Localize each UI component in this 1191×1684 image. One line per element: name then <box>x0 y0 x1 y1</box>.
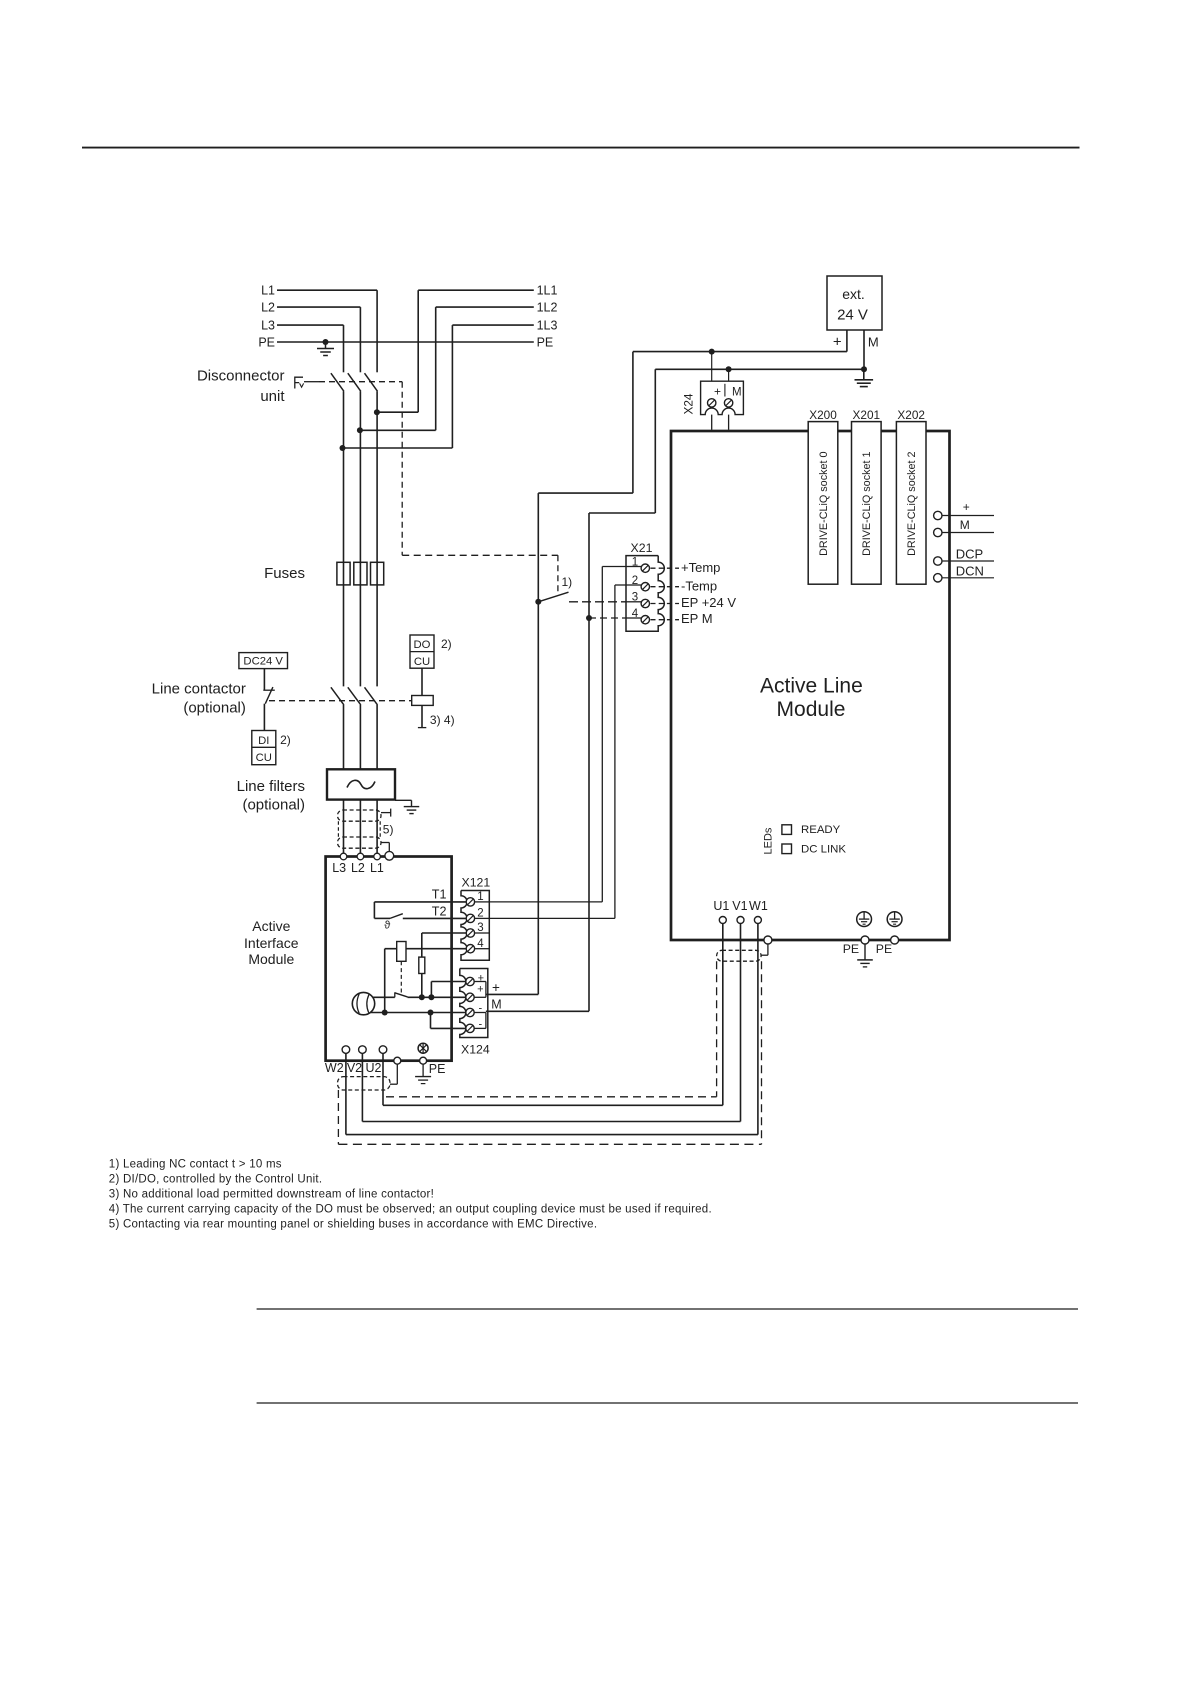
svg-text:EP M: EP M <box>681 611 713 626</box>
svg-text:ϑ: ϑ <box>384 920 390 932</box>
svg-text:Line contactor: Line contactor <box>152 681 246 698</box>
svg-text:DI: DI <box>258 735 269 747</box>
svg-text:(optional): (optional) <box>183 700 246 717</box>
svg-text:4) The current carrying capaci: 4) The current carrying capacity of the … <box>109 1204 712 1216</box>
svg-text:X21: X21 <box>631 541 653 555</box>
svg-text:unit: unit <box>260 388 285 405</box>
svg-text:L1: L1 <box>370 861 384 875</box>
svg-text:CU: CU <box>256 752 272 764</box>
svg-text:M: M <box>732 387 742 399</box>
svg-text:U2: U2 <box>366 1061 382 1075</box>
svg-text:DRIVE-CLiQ socket 1: DRIVE-CLiQ socket 1 <box>861 451 873 555</box>
svg-text:X121: X121 <box>462 875 491 889</box>
svg-text:M: M <box>491 998 501 1012</box>
svg-text:W1: W1 <box>749 899 768 913</box>
svg-text:3: 3 <box>632 592 638 604</box>
svg-text:Interface: Interface <box>244 935 299 951</box>
svg-text:L1: L1 <box>261 284 275 298</box>
svg-text:Active Line: Active Line <box>760 675 863 698</box>
svg-text:L2: L2 <box>261 301 275 315</box>
svg-text:PE: PE <box>537 335 554 349</box>
svg-text:X201: X201 <box>853 408 881 422</box>
svg-text:3: 3 <box>477 922 483 934</box>
svg-text:+: + <box>492 980 500 995</box>
svg-text:1) Leading NC contact t > 10 m: 1) Leading NC contact t > 10 ms <box>109 1159 282 1171</box>
svg-text:W2: W2 <box>325 1061 344 1075</box>
svg-text:DC24 V: DC24 V <box>243 655 283 667</box>
svg-text:+: + <box>477 984 483 996</box>
svg-text:X200: X200 <box>809 408 837 422</box>
svg-text:T1: T1 <box>432 888 447 902</box>
svg-text:5): 5) <box>383 823 394 837</box>
svg-text:DCP: DCP <box>956 547 983 562</box>
svg-text:DRIVE-CLiQ socket 0: DRIVE-CLiQ socket 0 <box>818 451 830 555</box>
svg-text:Line filters: Line filters <box>237 778 305 795</box>
svg-text:1L1: 1L1 <box>537 284 558 298</box>
svg-text:Module: Module <box>777 698 846 721</box>
svg-text:EP +24 V: EP +24 V <box>681 595 736 610</box>
svg-text:3) No additional load permitte: 3) No additional load permitted downstre… <box>109 1189 434 1201</box>
svg-text:+Temp: +Temp <box>681 560 720 575</box>
svg-text:L3: L3 <box>261 319 275 333</box>
svg-text:2): 2) <box>441 637 452 651</box>
svg-text:PE: PE <box>876 942 892 956</box>
svg-text:PE: PE <box>843 942 859 956</box>
svg-text:X124: X124 <box>461 1042 490 1056</box>
svg-text:PE: PE <box>429 1062 446 1076</box>
svg-text:Fuses: Fuses <box>264 565 305 582</box>
svg-text:2): 2) <box>280 733 291 747</box>
svg-text:DO: DO <box>414 639 431 651</box>
svg-text:T2: T2 <box>432 904 447 918</box>
svg-text:V2: V2 <box>347 1061 362 1075</box>
svg-text:Active: Active <box>252 918 290 934</box>
svg-text:4: 4 <box>477 938 484 950</box>
svg-text:DCN: DCN <box>956 564 984 579</box>
svg-text:DRIVE-CLiQ socket 2: DRIVE-CLiQ socket 2 <box>906 451 918 555</box>
svg-text:Module: Module <box>248 951 294 967</box>
svg-text:1: 1 <box>632 556 638 568</box>
svg-text:2: 2 <box>632 575 638 587</box>
svg-text:X202: X202 <box>897 408 925 422</box>
svg-text:24 V: 24 V <box>837 307 868 324</box>
svg-text:X24: X24 <box>682 393 696 414</box>
svg-text:1: 1 <box>477 891 483 903</box>
svg-text:(optional): (optional) <box>242 797 305 814</box>
svg-text:M: M <box>868 335 879 350</box>
svg-text:3) 4): 3) 4) <box>430 713 455 727</box>
svg-text:+: + <box>714 384 721 398</box>
svg-text:1L2: 1L2 <box>537 301 558 315</box>
svg-text:1): 1) <box>562 575 573 589</box>
svg-text:2: 2 <box>477 908 483 920</box>
svg-text:1L3: 1L3 <box>537 319 558 333</box>
svg-text:DC LINK: DC LINK <box>801 843 846 855</box>
svg-text:M: M <box>960 518 970 532</box>
svg-text:+: + <box>833 334 842 351</box>
svg-text:READY: READY <box>801 824 841 836</box>
svg-text:PE: PE <box>258 335 275 349</box>
svg-text:4: 4 <box>632 608 639 620</box>
svg-text:CU: CU <box>414 656 430 668</box>
svg-text:+: + <box>963 500 970 514</box>
svg-text:LEDs: LEDs <box>763 827 775 854</box>
svg-text:U1: U1 <box>713 899 729 913</box>
svg-text:V1: V1 <box>732 899 747 913</box>
svg-text:L3: L3 <box>332 861 346 875</box>
svg-text:L2: L2 <box>351 861 365 875</box>
svg-text:Disconnector: Disconnector <box>197 368 285 385</box>
svg-text:2) DI/DO, controlled by the Co: 2) DI/DO, controlled by the Control Unit… <box>109 1174 322 1186</box>
svg-text:5) Contacting via rear mountin: 5) Contacting via rear mounting panel or… <box>109 1219 597 1231</box>
svg-text:-Temp: -Temp <box>681 578 717 593</box>
svg-text:ext.: ext. <box>842 286 865 302</box>
